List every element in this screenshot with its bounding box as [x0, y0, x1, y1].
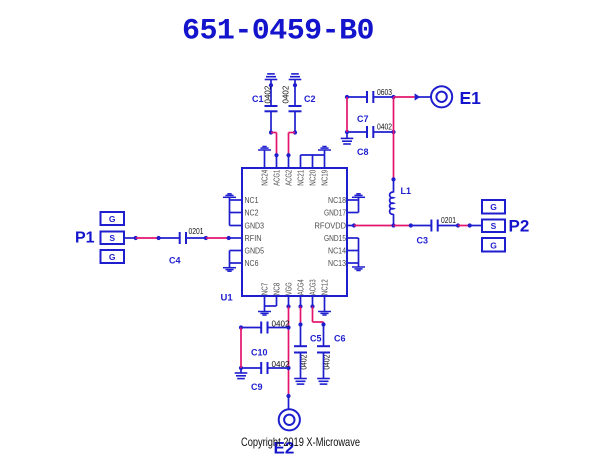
wire C1 to ACG1 — [271, 133, 277, 156]
svg-text:RFOVDD: RFOVDD — [315, 221, 347, 230]
svg-text:0402: 0402 — [281, 85, 290, 103]
svg-text:G: G — [490, 240, 497, 250]
wire NC24 stub — [264, 150, 266, 168]
ground right-top — [352, 194, 365, 198]
wire C3 right lead — [438, 223, 460, 227]
wire C9 right lead — [268, 367, 289, 369]
wire ACG2 stub — [286, 153, 290, 168]
wire NC21/NC20/NC19 bracket — [301, 150, 325, 168]
wire C1 lower lead — [269, 111, 273, 134]
ground C1 top — [265, 74, 278, 80]
wire C2 lower lead — [293, 111, 297, 134]
E1 label — [460, 88, 482, 108]
wire C10/C9 ground rail — [240, 328, 242, 373]
svg-text:P2: P2 — [509, 217, 530, 236]
svg-text:NC12: NC12 — [320, 279, 329, 295]
svg-text:RFIN: RFIN — [245, 234, 262, 243]
ground NC7 — [258, 312, 271, 316]
svg-text:0603: 0603 — [377, 88, 392, 97]
wire C5 upper lead — [300, 325, 302, 347]
pin NC13 label — [328, 259, 346, 268]
svg-text:ACG3: ACG3 — [308, 279, 317, 295]
capacitor C1 — [265, 106, 278, 111]
capacitor C2 — [289, 106, 302, 111]
wire C7/C8 ground rail — [346, 97, 348, 138]
wire C3 left lead — [411, 225, 432, 227]
wire to E2 — [288, 396, 290, 409]
svg-text:ACG1: ACG1 — [272, 169, 281, 185]
wire NC7/NC8 bracket — [265, 296, 277, 311]
svg-text:651-0459-B0: 651-0459-B0 — [182, 15, 374, 49]
wire C2 to ACG2 — [289, 133, 296, 156]
C8 value 0402 — [377, 123, 392, 132]
capacitor C5 — [294, 346, 307, 352]
wire VGG stub — [286, 296, 290, 309]
capacitor C3 — [431, 220, 437, 232]
wire P1 to C4 c — [159, 237, 180, 239]
C7 label — [357, 114, 369, 124]
pin NC21 label — [296, 169, 305, 185]
pin GND3 label — [245, 221, 265, 230]
svg-text:U1: U1 — [221, 293, 234, 304]
wire ACG4 stub — [298, 296, 302, 309]
wire ACG1 stub — [274, 153, 278, 168]
svg-text:G: G — [490, 202, 497, 212]
C4 label — [169, 256, 181, 266]
svg-text:S: S — [109, 233, 115, 243]
wire ACG3 stub — [310, 296, 314, 309]
pin ACG3 label — [308, 279, 317, 295]
ground C7/C8 — [341, 138, 354, 144]
connector P1 G top — [101, 212, 125, 225]
wire E1 node vertical — [393, 97, 395, 132]
svg-text:NC21: NC21 — [296, 169, 305, 185]
wire C6 lower lead — [323, 353, 325, 379]
pin RFOVDD label — [315, 221, 347, 230]
wire C10 left lead — [239, 325, 261, 329]
svg-text:S: S — [491, 221, 497, 231]
svg-text:NC2: NC2 — [245, 208, 259, 217]
connector P1 S — [101, 232, 125, 245]
copyright text — [241, 435, 360, 449]
C5 label — [310, 334, 322, 344]
C6 value 0402 — [323, 354, 332, 369]
svg-text:NC19: NC19 — [320, 169, 329, 185]
pin NC18 label — [328, 196, 346, 205]
wire NC18/GND17 bracket — [347, 197, 359, 212]
svg-text:NC6: NC6 — [245, 259, 259, 268]
connector P2 G top — [482, 200, 505, 214]
C1 label — [252, 94, 264, 104]
connector P2 G bottom — [482, 238, 505, 252]
wire RFOVDD stub — [347, 223, 356, 227]
pin ACG2 label — [284, 169, 293, 185]
svg-text:NC8: NC8 — [272, 282, 281, 295]
svg-text:0201: 0201 — [189, 227, 204, 236]
wire C7 left lead — [347, 96, 367, 98]
wire C8 to L1 — [391, 132, 395, 181]
connector P2 S — [482, 220, 505, 233]
P1 label — [75, 229, 95, 246]
wire NC12 stub — [324, 296, 326, 311]
C9 label — [251, 382, 263, 392]
C2 label — [304, 94, 316, 104]
C8 label — [357, 147, 369, 157]
title 651-0459-B0 — [182, 15, 374, 49]
capacitor C4 — [180, 232, 186, 244]
wire ACG4 to C5 — [298, 307, 302, 327]
svg-text:C10: C10 — [251, 348, 268, 358]
pin NC1 label — [245, 196, 259, 205]
svg-text:C8: C8 — [357, 147, 369, 157]
E1 pin arrow — [415, 93, 431, 100]
wire to E1 — [394, 96, 415, 98]
svg-text:C7: C7 — [357, 114, 369, 124]
svg-text:NC14: NC14 — [328, 246, 346, 255]
svg-text:C4: C4 — [169, 256, 181, 266]
ground C5 — [294, 379, 307, 385]
C10 label — [251, 348, 268, 358]
pin GND17 label — [324, 208, 346, 217]
svg-text:C1: C1 — [252, 94, 264, 104]
svg-text:NC18: NC18 — [328, 196, 346, 205]
pin NC7 label — [260, 282, 269, 295]
wire GND15/NC14/NC13 bracket — [347, 238, 359, 267]
svg-text:VGG: VGG — [284, 282, 293, 295]
svg-text:GND15: GND15 — [324, 234, 346, 243]
ground right-bottom — [352, 267, 365, 271]
pin ACG1 label — [272, 169, 281, 185]
C10 value 0402 — [272, 319, 291, 328]
wire C4 to RFIN a — [186, 236, 208, 240]
wire C10 right lead — [268, 327, 289, 329]
wire C9 left lead — [239, 366, 261, 370]
pin GND5 label — [245, 246, 265, 255]
wire C5 lower lead — [300, 353, 302, 379]
C5 value 0402 — [300, 354, 309, 369]
svg-text:C3: C3 — [417, 236, 429, 246]
C3 label — [417, 236, 429, 246]
pin NC2 label — [245, 208, 259, 217]
svg-text:0201: 0201 — [441, 216, 456, 225]
wire P1 to C4 b — [136, 236, 161, 240]
wire C3 to P2 — [458, 223, 482, 227]
capacitor C8 — [367, 126, 373, 138]
wire ACG3 to C6 — [313, 307, 326, 327]
wire C7 right lead — [373, 95, 395, 99]
wire RFIN stub — [229, 237, 242, 239]
wire C8 right lead — [373, 130, 395, 134]
wire GND5/NC6 bracket — [230, 251, 243, 268]
pin VGG label — [284, 282, 293, 295]
capacitor C10 — [261, 322, 267, 334]
svg-text:GND5: GND5 — [245, 246, 265, 255]
inductor L1 — [390, 179, 394, 225]
svg-text:C9: C9 — [251, 382, 263, 392]
pin NC6 label — [245, 259, 259, 268]
wire L1 to C3 — [394, 223, 413, 227]
svg-text:ACG4: ACG4 — [296, 279, 305, 295]
svg-text:P1: P1 — [75, 229, 95, 246]
ground C2 top — [289, 74, 302, 80]
ground NC24 — [258, 147, 271, 151]
wire NC1/NC2/GND3 bracket — [230, 197, 243, 225]
wire VGG rail — [286, 307, 290, 399]
svg-text:C2: C2 — [304, 94, 316, 104]
ground C10/C9 — [235, 373, 248, 379]
wire RFOVDD to L1 — [354, 223, 396, 227]
ground NC12 — [318, 312, 331, 316]
ground NC19 — [318, 147, 331, 151]
connector E2 — [279, 409, 300, 430]
pin ACG4 label — [296, 279, 305, 295]
wire C4 to RFIN b — [206, 236, 231, 240]
connector P1 G bottom — [101, 250, 125, 263]
svg-text:NC13: NC13 — [328, 259, 346, 268]
wire C6 upper lead — [323, 325, 325, 347]
C6 label — [334, 334, 346, 344]
svg-text:L1: L1 — [401, 186, 412, 196]
op-amp U1 body — [242, 168, 347, 296]
svg-text:NC20: NC20 — [308, 169, 317, 185]
svg-text:Copyright 2019 X-Microwave: Copyright 2019 X-Microwave — [241, 435, 360, 449]
U1 reference label — [221, 293, 234, 304]
ground left-bottom — [223, 268, 236, 272]
svg-text:C5: C5 — [310, 334, 322, 344]
capacitor C9 — [261, 362, 267, 374]
svg-text:GND17: GND17 — [324, 208, 346, 217]
svg-text:NC1: NC1 — [245, 196, 259, 205]
svg-text:G: G — [109, 252, 116, 262]
C4 value 0201 — [189, 227, 204, 236]
svg-text:0402: 0402 — [377, 123, 392, 132]
svg-text:E1: E1 — [460, 88, 482, 108]
wire C8 left lead — [345, 95, 367, 134]
pin RFIN label — [245, 234, 262, 243]
P2 label — [509, 217, 530, 236]
pin NC8 label — [272, 282, 281, 295]
pin NC12 label — [320, 279, 329, 295]
L1 label — [401, 186, 412, 196]
svg-text:ACG2: ACG2 — [284, 169, 293, 185]
pin NC24 label — [260, 169, 269, 185]
pin NC19 label — [320, 169, 329, 185]
ground left-top — [223, 194, 236, 198]
C7 value 0603 — [377, 88, 392, 97]
capacitor C7 — [367, 91, 373, 103]
capacitor C6 — [317, 346, 330, 352]
C2 value 0402 — [281, 85, 290, 103]
svg-text:NC7: NC7 — [260, 282, 269, 295]
pin NC20 label — [308, 169, 317, 185]
connector E1 — [431, 86, 452, 107]
svg-text:G: G — [109, 214, 116, 224]
C1 value 0402 — [263, 85, 272, 103]
ground C6 — [317, 379, 330, 385]
svg-text:NC24: NC24 — [260, 169, 269, 185]
wire P1 to C4 a — [124, 236, 138, 240]
svg-text:C6: C6 — [334, 334, 346, 344]
wire C1 upper lead — [269, 80, 273, 107]
C3 value 0201 — [441, 216, 456, 225]
pin GND15 label — [324, 234, 346, 243]
svg-text:0402: 0402 — [263, 85, 272, 103]
pin NC14 label — [328, 246, 346, 255]
wire C2 upper lead — [293, 80, 297, 107]
C9 value 0402 — [272, 360, 291, 369]
svg-text:GND3: GND3 — [245, 221, 265, 230]
E2 label — [274, 439, 295, 458]
